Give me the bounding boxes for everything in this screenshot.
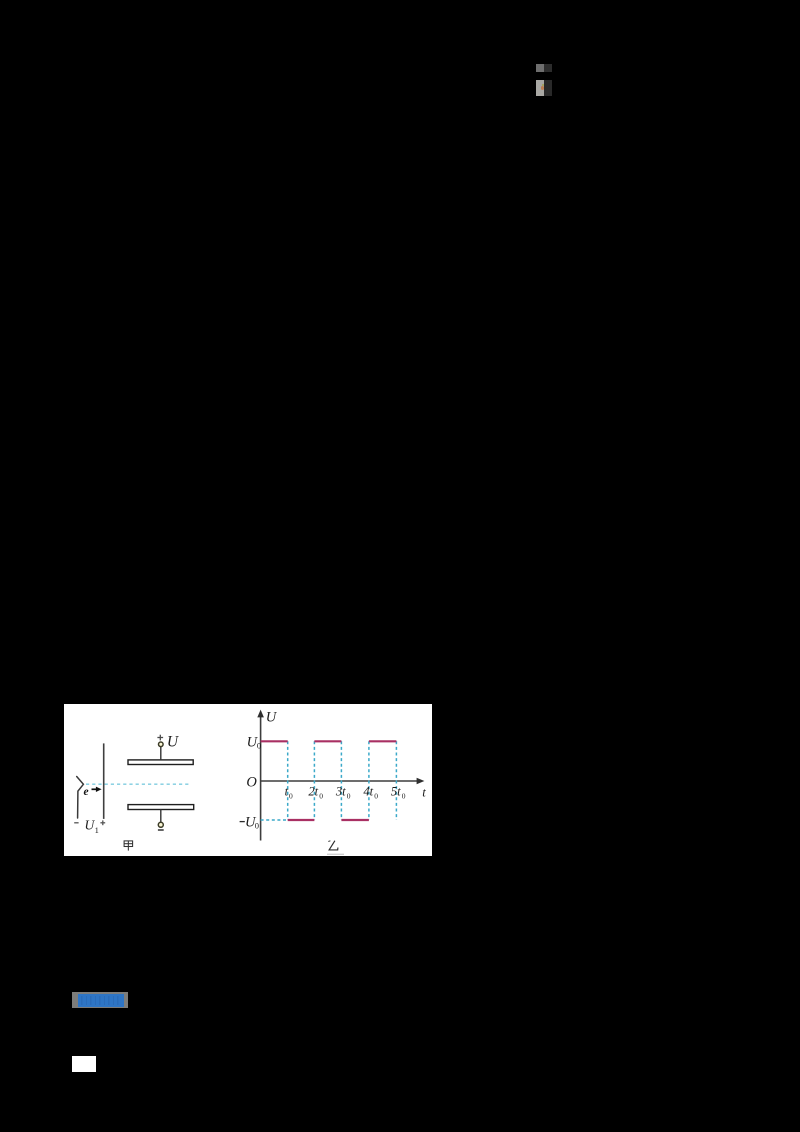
dashed guide to -U0 level — [261, 819, 288, 821]
answer white box — [72, 1056, 96, 1072]
dashed line at 5t0 — [395, 741, 397, 820]
svg-text:t: t — [285, 785, 289, 799]
svg-text:0: 0 — [257, 741, 261, 751]
svg-text:3t: 3t — [335, 785, 346, 799]
svg-text:O: O — [246, 775, 257, 791]
blue section tag (blue face) — [78, 994, 124, 1007]
svg-text:U: U — [167, 734, 180, 751]
electron beam dashed line — [86, 783, 191, 785]
blue section tag (gray backing) — [72, 992, 128, 1008]
thumbnail block row2 left (light gray with colored logo speck) — [536, 80, 544, 96]
svg-text:0: 0 — [374, 791, 378, 800]
terminal node top — [159, 742, 164, 747]
dashed rise line at 4t0 — [368, 741, 370, 820]
wire: top plate to terminal — [160, 747, 162, 760]
thumbnail block row2 right (dark gray) — [544, 80, 552, 96]
svg-text:0: 0 — [402, 791, 406, 800]
svg-text:0: 0 — [289, 791, 293, 800]
label jia (figure 1) drawn glyph — [124, 841, 133, 851]
capacitor top plate — [128, 760, 193, 765]
label minus of U1 — [74, 822, 78, 824]
square wave high segment 3 — [369, 740, 397, 742]
dashed drop line at 3t0 — [340, 741, 342, 820]
svg-text:e: e — [84, 786, 89, 798]
thumbnail block row1 right (dark gray) — [544, 64, 552, 72]
faint shadow line under yi — [327, 853, 344, 855]
U axis (vertical) — [260, 716, 262, 841]
svg-text:5t: 5t — [391, 785, 401, 799]
wire: bottom plate to terminal — [160, 810, 162, 823]
label plus at terminal — [157, 737, 163, 739]
svg-text:1: 1 — [95, 825, 99, 835]
svg-text:4t: 4t — [363, 785, 373, 799]
arrow: electron velocity — [92, 788, 97, 790]
terminal node bottom — [158, 822, 163, 827]
dashed rise line at 2t0 — [313, 741, 315, 820]
svg-text:2t: 2t — [308, 785, 318, 799]
svg-text:t: t — [422, 785, 426, 799]
svg-text:0: 0 — [255, 821, 259, 831]
logo speck yellow-green — [542, 84, 544, 86]
dashed drop line at t0 — [287, 741, 289, 820]
t axis (horizontal) — [261, 780, 418, 782]
label plus of U1 — [100, 822, 105, 824]
capacitor bottom plate — [128, 805, 194, 810]
square wave low segment 1 — [288, 819, 315, 821]
label yi (figure 2) drawn glyph — [328, 841, 338, 850]
svg-text:0: 0 — [319, 791, 323, 800]
figure panel (white) — [64, 704, 432, 856]
square wave high segment 1 — [261, 740, 288, 742]
logo speck orange — [541, 86, 544, 90]
svg-text:0: 0 — [347, 791, 351, 800]
wire: cathode lead and emitter bend — [77, 777, 84, 819]
thumbnail block row1 left (light gray) — [536, 64, 544, 72]
square wave high segment 2 — [314, 740, 341, 742]
square wave low segment 2 — [341, 819, 369, 821]
blue tag glyph marks — [81, 996, 121, 1005]
anode plate (vertical line with slit) — [103, 743, 105, 819]
level label -U0 — [240, 821, 245, 823]
ground stroke under bottom terminal — [158, 829, 164, 831]
svg-text:U: U — [266, 709, 278, 725]
